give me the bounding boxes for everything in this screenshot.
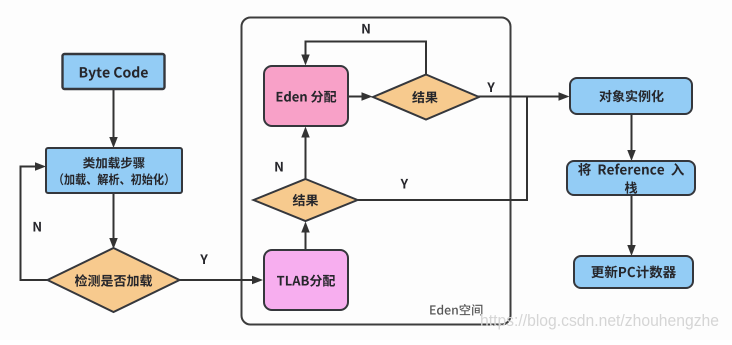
wire: Byte Code -> 类加载步骤	[109, 88, 118, 148]
wire: 将Reference入栈 -> 更新PC计数器	[627, 194, 636, 256]
process box: Eden 分配	[264, 66, 348, 126]
wire: Y 结果(upper) -> 对象实例化	[478, 92, 570, 101]
decision diamond: 结果 (lower)	[254, 179, 358, 221]
process box: Byte Code	[63, 54, 165, 89]
wire: N 结果(lower) -> Eden分配	[301, 127, 310, 181]
label: N (left loop)	[34, 222, 41, 232]
wire: 对象实例化 -> 将Reference入栈	[627, 113, 636, 161]
wire: N loop 结果(upper) -> Eden分配	[301, 42, 426, 76]
label: Y (to 对象实例化)	[487, 82, 495, 92]
label: Eden空间	[430, 304, 482, 316]
decision diamond: 结果 (upper)	[373, 75, 479, 120]
process box: 类加载步骤（加载、解析、初始化）	[46, 148, 182, 193]
process box: TLAB分配	[264, 250, 348, 310]
process box: 将 Reference 入栈	[567, 161, 695, 195]
wire: TLAB分配 -> 结果(lower)	[301, 222, 310, 251]
process box: 更新PC计数器	[574, 256, 693, 288]
wire: Y 结果(lower) -> junction	[356, 98, 528, 201]
label: Y (to TLAB)	[200, 254, 208, 264]
wire: Y 检测是否加载 -> TLAB分配	[179, 276, 264, 285]
label: N (top loop)	[362, 24, 369, 34]
wire: 类加载步骤 -> 检测是否加载	[109, 192, 118, 249]
label: N (result lower)	[275, 162, 282, 172]
decision diamond: 检测是否加载	[48, 248, 180, 312]
wire: Eden分配 -> 结果(upper)	[347, 92, 373, 101]
wire: N loop 检测是否加载 -> 类加载步骤	[21, 162, 49, 280]
label: Y (result lower)	[401, 179, 409, 189]
process box: 对象实例化	[570, 78, 692, 114]
svg-text:https://blog.csdn.net/zhouheng: https://blog.csdn.net/zhouhengzhe	[480, 312, 719, 330]
container: Eden空间 region	[242, 18, 511, 325]
